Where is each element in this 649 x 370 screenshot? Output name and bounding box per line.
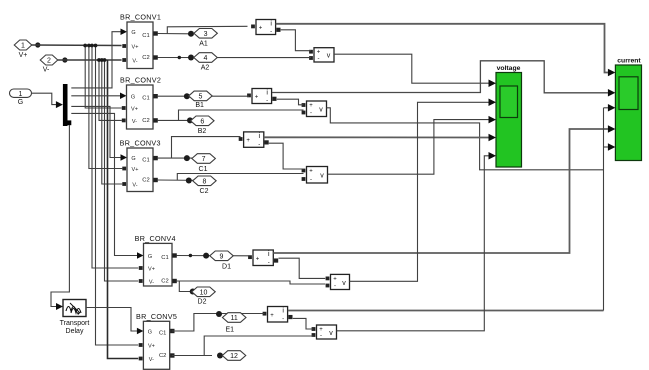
svg-text:A1: A1 [199, 41, 208, 48]
wire i4 physical out to v4 [279, 258, 326, 278]
wire C2 of BR_CONV5 to port E2 and v5 in2 [172, 355, 212, 357]
node junction dot C1 [184, 155, 190, 161]
svg-text:-: - [320, 333, 322, 339]
svg-text:voltage: voltage [497, 65, 521, 72]
node V+ junction dot [35, 42, 40, 47]
svg-text:D1: D1 [222, 263, 231, 270]
svg-text:G: G [148, 330, 152, 336]
input port 1 (G) oval inport [10, 89, 32, 97]
svg-text:+: + [309, 169, 313, 175]
arrow input of scope voltage [489, 152, 497, 160]
node junction on V+ rail [94, 44, 98, 48]
node junction on V- rail [97, 58, 101, 62]
svg-text:V-: V- [132, 119, 137, 125]
svg-text:+: + [246, 138, 250, 144]
wire V- drop to BR_CONV4 [105, 60, 139, 281]
svg-text:C1: C1 [161, 255, 168, 261]
svg-text:C2: C2 [200, 188, 209, 195]
wire demux out3 to BR_CONV3 G [71, 106, 121, 157]
arrow into BR_CONV3 G [121, 154, 128, 161]
svg-text:v: v [320, 173, 324, 180]
svg-text:C2: C2 [142, 118, 149, 124]
wire C1 of BR_CONV2 to port B1 and i2 [157, 95, 249, 97]
arrow into BR_CONV1 G [121, 28, 128, 35]
svg-text:4: 4 [204, 55, 208, 62]
node junction on V+ rail [90, 44, 94, 48]
svg-text:G: G [131, 30, 135, 36]
wire shared vertical to current scope inputs 3 and 5 [603, 108, 605, 311]
wire v3 out to voltage scope input 3 [328, 120, 489, 175]
svg-text:V-: V- [149, 280, 154, 286]
arrow input of scope current [608, 89, 616, 97]
node small dot on A2 wire [178, 56, 181, 59]
wire demux out5 down to Transport Delay [51, 125, 69, 307]
svg-text:BR_CONV5: BR_CONV5 [136, 312, 177, 321]
svg-text:G: G [148, 254, 152, 260]
svg-text:V-: V- [43, 67, 50, 74]
svg-text:BR_CONV1: BR_CONV1 [120, 13, 161, 22]
node junction dot A1 [188, 31, 194, 37]
svg-text:8: 8 [202, 178, 206, 185]
demux Demux1 (black bar) [63, 84, 68, 126]
svg-text:V+: V+ [131, 107, 138, 113]
svg-text:11: 11 [231, 315, 238, 322]
arrow into BR_CONV5 G [137, 328, 144, 335]
output port 12 (E2) [222, 351, 246, 361]
node junction dot B1 [184, 93, 190, 99]
wire v2 out long route to current scope input 3 [327, 108, 604, 170]
wire i1 signal to current scope input 1 [276, 24, 608, 73]
arrow input of scope current [608, 125, 616, 133]
svg-text:C1: C1 [199, 166, 208, 173]
svg-text:-: - [282, 317, 284, 323]
svg-text:-: - [310, 111, 312, 117]
arrow input of scope voltage [489, 134, 497, 142]
svg-text:-: - [270, 29, 272, 35]
svg-text:C2: C2 [142, 55, 149, 61]
wire demux out2 to BR_CONV2 G [71, 95, 121, 97]
wire i5 signal to current scope [288, 310, 604, 312]
arrow input of scope voltage [489, 116, 497, 124]
svg-text:-: - [318, 56, 320, 62]
arrow into Transport Delay [56, 303, 63, 310]
input port 1 (V+) hexagonal connection port [14, 40, 32, 50]
svg-text:v: v [327, 53, 331, 60]
voltage measurement block v3 [302, 167, 328, 184]
svg-text:B2: B2 [198, 128, 207, 135]
wire i1 physical out to v1 [281, 30, 311, 51]
node junction dot E1 [216, 311, 222, 317]
subsystem BR_CONV1 [122, 22, 157, 69]
svg-text:+: + [259, 26, 263, 32]
node V- junction dot [62, 57, 67, 62]
wire demux out1 to BR_CONV1 G [71, 32, 121, 88]
input port 2 (V-) hexagonal connection port [40, 55, 58, 65]
subsystem BR_CONV4 [139, 243, 177, 286]
svg-text:BR_CONV2: BR_CONV2 [120, 76, 161, 85]
voltage measurement block v2 [302, 101, 327, 117]
block Transport Delay [63, 300, 86, 317]
output port 11 (E1) [222, 313, 246, 323]
output port 6 (B2) [191, 116, 215, 126]
voltage measurement block v1 [309, 48, 334, 63]
subsystem BR_CONV3 [122, 148, 157, 192]
wire V+ rail to BR_CONV1 [32, 44, 122, 47]
wire C2 of BR_CONV3 to port C2 and v3 in2 [157, 179, 212, 182]
wire C2 of BR_CONV4 to port D2 and v4 in2 [177, 281, 326, 284]
output port 4 (A2) [194, 53, 218, 63]
svg-text:C2: C2 [161, 279, 168, 285]
current measurement block i5 [263, 307, 293, 323]
output port 5 (B1) [189, 91, 213, 101]
wire demux out4 to BR_CONV4 G [71, 113, 138, 255]
svg-text:v: v [342, 280, 346, 287]
svg-text:7: 7 [202, 156, 206, 163]
wire G source to demux [32, 93, 57, 104]
current measurement block i3 [239, 132, 269, 148]
wire i5 physical out to v5 [293, 318, 314, 329]
svg-text:BR_CONV3: BR_CONV3 [120, 139, 161, 148]
arrow into BR_CONV4 G [137, 252, 144, 259]
scope current (green block) [615, 65, 641, 161]
svg-text:current: current [617, 57, 641, 64]
arrow input of scope voltage [489, 99, 497, 107]
svg-text:+: + [256, 256, 260, 262]
output port 7 (C1) [192, 154, 216, 164]
node junction on V- rail [103, 58, 107, 62]
wire V- drop to BR_CONV2 [99, 60, 122, 120]
arrow into BR_CONV2 G [120, 93, 127, 100]
svg-text:D2: D2 [198, 298, 207, 305]
svg-text:C1: C1 [142, 96, 149, 102]
arrow input of scope current [608, 143, 616, 151]
current measurement block i2 [247, 89, 276, 105]
svg-text:C2: C2 [159, 353, 166, 359]
node junction on V+ rail [83, 44, 87, 48]
svg-text:V-: V- [132, 59, 137, 65]
voltage measurement block v5 [312, 325, 337, 339]
svg-text:V-: V- [149, 357, 154, 363]
svg-text:Transport: Transport [60, 320, 90, 327]
wire i2 signal to current scope input 2 [272, 61, 608, 93]
node junction dot D1 [203, 253, 209, 259]
current measurement block i1 [251, 20, 280, 36]
wire v1 out to voltage scope input 1 [334, 54, 489, 83]
wire C1 of BR_CONV1 to port A1 and i1 [158, 33, 192, 35]
svg-text:-: - [310, 177, 312, 183]
svg-text:v: v [319, 107, 323, 114]
scope voltage (green block) [496, 73, 522, 168]
wire i3 physical out to v3 [269, 143, 304, 169]
wire V+ drop to BR_CONV2 [85, 46, 122, 109]
arrow input of scope current [608, 104, 616, 112]
svg-text:9: 9 [220, 253, 224, 260]
svg-text:V+: V+ [148, 267, 155, 273]
wire C1 of BR_CONV3 to port C1 and riser to i3 [157, 157, 211, 159]
svg-text:+: + [317, 50, 321, 56]
wire i2 physical out to v2 [277, 99, 304, 105]
svg-text:-: - [258, 142, 260, 148]
node junction dot C2 [186, 178, 192, 184]
svg-text:G: G [131, 156, 135, 162]
svg-text:1: 1 [21, 43, 25, 50]
svg-text:10: 10 [200, 289, 208, 296]
svg-text:V+: V+ [132, 45, 139, 51]
wire V- drop to BR_CONV5 [108, 60, 139, 359]
node junction on V- rail [100, 58, 104, 62]
svg-text:G: G [18, 99, 23, 106]
svg-text:1: 1 [19, 91, 23, 98]
svg-text:C1: C1 [142, 33, 149, 39]
svg-text:+: + [319, 327, 323, 333]
wire V+ drop to BR_CONV3 [89, 46, 122, 169]
arrow input of scope voltage [489, 79, 497, 87]
svg-text:C2: C2 [142, 178, 149, 184]
svg-text:v: v [329, 330, 333, 337]
svg-text:12: 12 [230, 353, 238, 360]
output port 8 (C2) [193, 176, 217, 186]
svg-text:Delay: Delay [66, 328, 84, 335]
svg-text:3: 3 [204, 31, 208, 38]
output port 10 (D2) [192, 287, 216, 297]
svg-text:C1: C1 [159, 331, 166, 337]
wire V- rail to BR_CONV1 [58, 59, 122, 61]
node small dot on D1 wire [189, 254, 192, 257]
svg-text:-: - [334, 284, 336, 290]
node junction on V+ rail [87, 44, 91, 48]
wire Transport Delay output to BR_CONV5 G [86, 308, 138, 332]
arrow input of scope current [608, 69, 616, 77]
subsystem BR_CONV2 [122, 85, 158, 129]
svg-text:V+: V+ [132, 167, 139, 173]
wire v4 out to voltage scope input 2 [350, 102, 489, 281]
svg-text:+: + [270, 313, 274, 319]
svg-text:2: 2 [47, 58, 51, 65]
svg-text:-: - [268, 260, 270, 266]
voltage measurement block v4 [326, 274, 350, 289]
svg-text:C1: C1 [142, 158, 149, 164]
svg-text:5: 5 [198, 94, 202, 101]
svg-text:V+: V+ [148, 344, 155, 350]
svg-text:E1: E1 [226, 327, 235, 334]
svg-text:V-: V- [132, 183, 137, 189]
node junction dot B2 [187, 117, 193, 123]
svg-text:+: + [255, 95, 259, 101]
wire i4 signal to current scope input 4 [273, 129, 608, 253]
wire V+ drop to BR_CONV4 [92, 46, 138, 269]
output port 9 (D1) [210, 251, 234, 261]
svg-text:A2: A2 [201, 65, 210, 72]
wire V- drop to BR_CONV3 [102, 60, 123, 184]
wire C2 of BR_CONV2 to port B2 and v2 in2 [157, 119, 211, 121]
svg-text:+: + [309, 103, 313, 109]
output port 3 (A1) [194, 29, 218, 39]
wire V+ drop to BR_CONV5 [96, 46, 139, 346]
wire v5 out to voltage scope input 5 [337, 156, 489, 331]
wire i3 signal to voltage scope input 4 [264, 136, 489, 138]
svg-text:BR_CONV4: BR_CONV4 [135, 234, 176, 243]
svg-text:B1: B1 [195, 102, 204, 109]
subsystem BR_CONV5 [139, 321, 175, 369]
svg-text:-: - [266, 98, 268, 104]
wire C1 of BR_CONV5 riser to port E1 and i5 [172, 314, 265, 332]
node junction dot E2 [217, 353, 223, 359]
current measurement block i4 [248, 250, 278, 266]
wire C1 of BR_CONV4 to port D1 and i4 [177, 255, 250, 257]
svg-text:V+: V+ [19, 52, 28, 59]
demux input arrow [56, 101, 63, 108]
node junction dot A2 [188, 55, 194, 61]
svg-text:+: + [333, 276, 337, 282]
node junction dot D2 [190, 289, 196, 295]
svg-text:G: G [131, 94, 135, 100]
wire C2 of BR_CONV1 to port A2 and v1 [158, 57, 312, 59]
svg-text:6: 6 [200, 118, 204, 125]
